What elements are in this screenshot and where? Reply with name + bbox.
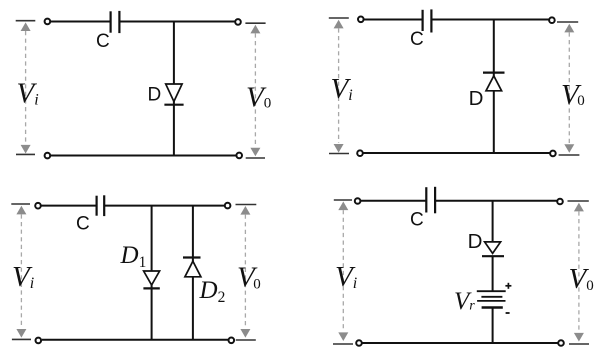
terminal bottom-right (TL) — [236, 153, 242, 159]
wire top (TL, input side to capacitor) — [50, 21, 110, 23]
svg-text:Vi: Vi — [335, 261, 357, 293]
capacitor C (BL) — [97, 195, 105, 216]
capacitor C (BR) — [426, 187, 435, 214]
label + (battery positive) — [505, 283, 511, 289]
Vi measurement arrow (BR) — [333, 200, 353, 344]
terminal bottom-right (BL) — [229, 338, 235, 344]
svg-text:C: C — [410, 29, 424, 50]
wire branch vertical (TL diode branch) — [173, 22, 175, 156]
terminal bottom-left (BR) — [356, 340, 362, 346]
Vi measurement arrow (TR) — [329, 18, 349, 154]
svg-text:D: D — [469, 87, 484, 110]
svg-text:D1: D1 — [120, 242, 147, 271]
V0 measurement arrow (TL) — [245, 23, 265, 158]
svg-text:C: C — [76, 214, 90, 235]
wire branch vertical (BR, battery to bottom) — [492, 308, 494, 344]
terminal bottom-left (BL) — [36, 338, 42, 344]
Vi measurement arrow (TL) — [16, 21, 36, 155]
wire top (BL, input side to capacitor) — [41, 205, 96, 207]
terminal bottom-right (BR) — [558, 340, 564, 346]
wire branch vertical (BL diode D1 branch) — [151, 206, 153, 340]
terminal top-left (TL) — [45, 19, 51, 25]
wire top (TR, input side to capacitor) — [364, 19, 423, 21]
terminal top-right (TR) — [549, 17, 555, 23]
svg-text:D: D — [468, 230, 483, 253]
svg-text:V0: V0 — [569, 263, 594, 295]
capacitor C (TR) — [423, 9, 432, 32]
svg-text:Vi: Vi — [331, 73, 353, 105]
svg-text:D: D — [148, 85, 162, 106]
terminal top-right (BL) — [225, 203, 231, 209]
svg-text:D2: D2 — [199, 277, 226, 306]
Vi measurement arrow (BL) — [11, 204, 31, 339]
svg-text:Vr: Vr — [454, 288, 475, 315]
diode D (TR, cathode up) — [483, 73, 505, 91]
wire branch vertical (BR, top to diode) — [492, 201, 494, 242]
terminal bottom-right (TR) — [550, 151, 556, 157]
terminal top-right (BR) — [557, 199, 563, 205]
terminal top-left (BL) — [35, 203, 41, 209]
wire top (BR, capacitor to output) — [436, 200, 557, 202]
V0 measurement arrow (BR) — [568, 201, 590, 344]
diode D2 (BL, cathode up) — [183, 258, 201, 277]
wire top (BL, capacitor to output) — [105, 205, 225, 207]
terminal top-right (TL) — [235, 19, 241, 25]
V0 measurement arrow (BL) — [236, 205, 257, 341]
wire top (TR, capacitor to output) — [432, 19, 549, 21]
diode D (BR, cathode down) — [482, 242, 504, 256]
wire bottom (TL) — [50, 155, 237, 157]
svg-text:Vi: Vi — [17, 77, 39, 109]
diode D (TL, cathode down) — [164, 84, 183, 105]
wire top (TL, capacitor to output) — [120, 21, 236, 23]
svg-text:C: C — [410, 210, 424, 231]
terminal top-left (BR) — [355, 198, 361, 204]
wire top (BR, input side to capacitor) — [361, 200, 426, 202]
svg-text:C: C — [96, 31, 110, 52]
wire bottom (BL) — [42, 339, 229, 341]
svg-text:V0: V0 — [246, 82, 271, 114]
wire bottom (TR) — [364, 152, 550, 154]
V0 measurement arrow (TR) — [557, 22, 579, 155]
svg-text:V0: V0 — [237, 262, 261, 294]
capacitor C (TL) — [111, 11, 120, 33]
wire branch vertical (BL diode D2 branch) — [192, 206, 194, 340]
wire branch vertical (BR, diode to battery) — [492, 256, 494, 291]
diode D1 (BL, cathode down) — [143, 271, 159, 288]
wire bottom (BR) — [362, 342, 559, 344]
terminal top-left (TR) — [358, 17, 364, 23]
svg-text:Vi: Vi — [12, 261, 34, 293]
svg-text:V0: V0 — [561, 79, 585, 111]
wire branch vertical (TR diode branch) — [493, 20, 495, 154]
label - (battery negative) — [506, 312, 510, 314]
terminal bottom-left (TL) — [45, 153, 51, 159]
battery Vr (BR) — [477, 291, 506, 307]
terminal bottom-left (TR) — [357, 150, 363, 156]
